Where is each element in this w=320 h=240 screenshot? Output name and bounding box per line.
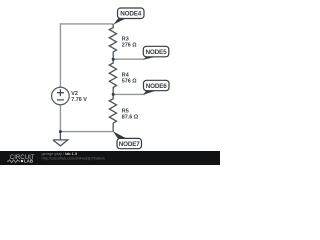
wire left vertical lower: [59, 105, 61, 132]
junction dot C (ground): [59, 130, 62, 133]
svg-text:NODE4: NODE4: [120, 11, 142, 18]
voltage source V2: [52, 87, 88, 105]
svg-text:NODE7: NODE7: [119, 141, 141, 148]
svg-text:576 Ω: 576 Ω: [122, 78, 137, 84]
resistor R3: [109, 24, 137, 59]
svg-text:NODE5: NODE5: [146, 49, 168, 56]
junction dot B (R4/R5): [112, 93, 115, 96]
svg-text:LAB: LAB: [24, 159, 33, 164]
junction dot A (R3/R4): [112, 58, 115, 61]
svg-text:NODE6: NODE6: [146, 83, 168, 90]
node NODE4 flag: [113, 8, 144, 25]
resistor R4: [109, 59, 137, 94]
wire stub to NODE5: [113, 58, 144, 60]
footer bar: [0, 151, 220, 165]
resistor R5: [109, 94, 138, 131]
svg-text:V2: V2: [71, 91, 78, 97]
footer url text line 2: [42, 157, 106, 161]
node NODE7 flag: [113, 131, 142, 149]
svg-text:276 Ω: 276 Ω: [122, 42, 137, 48]
wire top horizontal: [60, 23, 113, 25]
svg-text:george yazji / lab 1.3: george yazji / lab 1.3: [42, 152, 77, 156]
svg-text:7.76 V: 7.76 V: [71, 97, 87, 103]
node NODE5 flag: [143, 46, 169, 60]
footer credit text line 1: [42, 152, 77, 156]
svg-text:http://circuitlab.com/c/9bw33p: http://circuitlab.com/c/9bw33p75u6nw: [42, 157, 106, 161]
node NODE6 flag: [143, 80, 169, 95]
wire bottom horizontal: [60, 131, 113, 133]
wire left vertical upper: [59, 23, 61, 87]
ground: [53, 132, 68, 146]
svg-text:87.6 Ω: 87.6 Ω: [122, 115, 139, 121]
wire stub to NODE6: [113, 93, 144, 95]
CircuitLab logo: [7, 154, 35, 164]
